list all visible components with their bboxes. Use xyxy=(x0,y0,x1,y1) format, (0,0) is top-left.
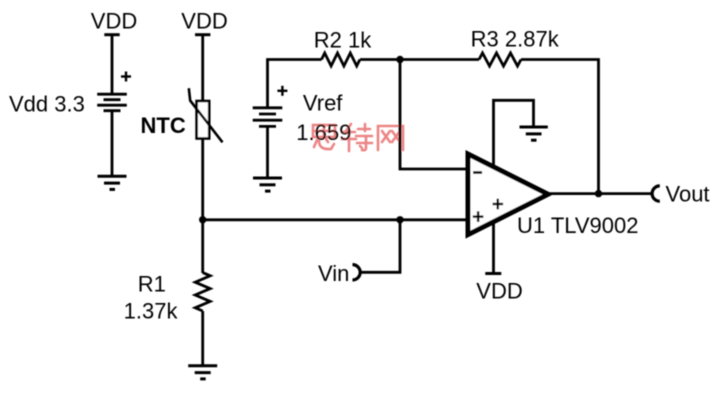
wire xyxy=(268,60,322,108)
svg-text:Vdd 3.3: Vdd 3.3 xyxy=(9,92,85,117)
pin Vin xyxy=(318,261,360,286)
网 xyxy=(378,126,403,150)
svg-text:1.37k: 1.37k xyxy=(124,299,179,324)
op-amp U1 TLV9002 xyxy=(468,154,548,235)
特 xyxy=(346,124,351,131)
wire xyxy=(201,220,204,273)
wire xyxy=(360,220,400,272)
wire xyxy=(266,126,269,178)
svg-text:U1 TLV9002: U1 TLV9002 xyxy=(517,213,639,238)
resistor R1 1.37k xyxy=(195,273,210,311)
svg-text:VDD: VDD xyxy=(476,279,522,304)
wire xyxy=(400,58,479,61)
wire (main + input) xyxy=(203,218,468,221)
battery V2 Vref xyxy=(253,86,288,127)
wire xyxy=(111,111,114,177)
wire xyxy=(111,35,114,94)
ground xyxy=(188,366,217,379)
node junction (Vin tap) xyxy=(396,216,403,223)
wire xyxy=(201,311,204,366)
power VDD (op-amp supply) xyxy=(476,274,522,304)
pin Vout xyxy=(652,182,709,207)
node junction (NTC / R1 / +input) xyxy=(199,216,206,223)
wire (output) xyxy=(548,192,652,195)
svg-text:R1: R1 xyxy=(138,272,166,297)
watermark xyxy=(313,124,403,151)
wire (ground bracket above op-amp) xyxy=(494,100,534,167)
svg-text:NTC: NTC xyxy=(141,113,186,138)
node junction (output / feedback) xyxy=(595,190,602,197)
label R1 1.37k xyxy=(124,272,179,324)
svg-text:1.659: 1.659 xyxy=(296,120,351,145)
wire (V- pin to VDD) xyxy=(492,220,495,274)
svg-text:R2 1k: R2 1k xyxy=(314,27,372,52)
ground xyxy=(520,127,548,140)
power VDD (NTC column) xyxy=(181,9,227,35)
ground xyxy=(253,178,282,191)
label Vref 1.659 xyxy=(296,91,351,146)
thermistor NTC xyxy=(189,88,223,142)
wire xyxy=(521,60,599,194)
svg-text:Vin: Vin xyxy=(318,261,349,286)
wire xyxy=(400,60,468,170)
resistor R2 1k xyxy=(322,53,360,66)
battery V1 xyxy=(97,72,131,111)
resistor R3 2.87k xyxy=(479,53,521,66)
svg-text:VDD: VDD xyxy=(181,9,227,34)
svg-text:Vout: Vout xyxy=(666,182,710,207)
wire xyxy=(360,58,400,61)
wire xyxy=(201,35,204,220)
svg-text:VDD: VDD xyxy=(91,9,137,34)
node junction (R2 / R3 / -input) xyxy=(396,56,403,63)
思 xyxy=(313,125,335,137)
svg-text:R3 2.87k: R3 2.87k xyxy=(471,27,560,52)
svg-text:Vref: Vref xyxy=(303,91,343,116)
ground xyxy=(98,176,127,189)
power VDD (left battery column) xyxy=(91,9,137,35)
